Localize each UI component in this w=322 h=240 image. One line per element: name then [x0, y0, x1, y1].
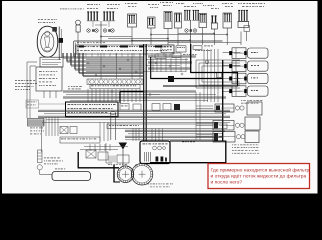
svg-text:Где примерно находится выносно: Где примерно находится выносной фильтр: [211, 166, 310, 173]
svg-text:и откуда идёт поток жидкости д: и откуда идёт поток жидкости до фильтра: [211, 173, 307, 179]
svg-text:и после него?: и после него?: [211, 179, 243, 185]
